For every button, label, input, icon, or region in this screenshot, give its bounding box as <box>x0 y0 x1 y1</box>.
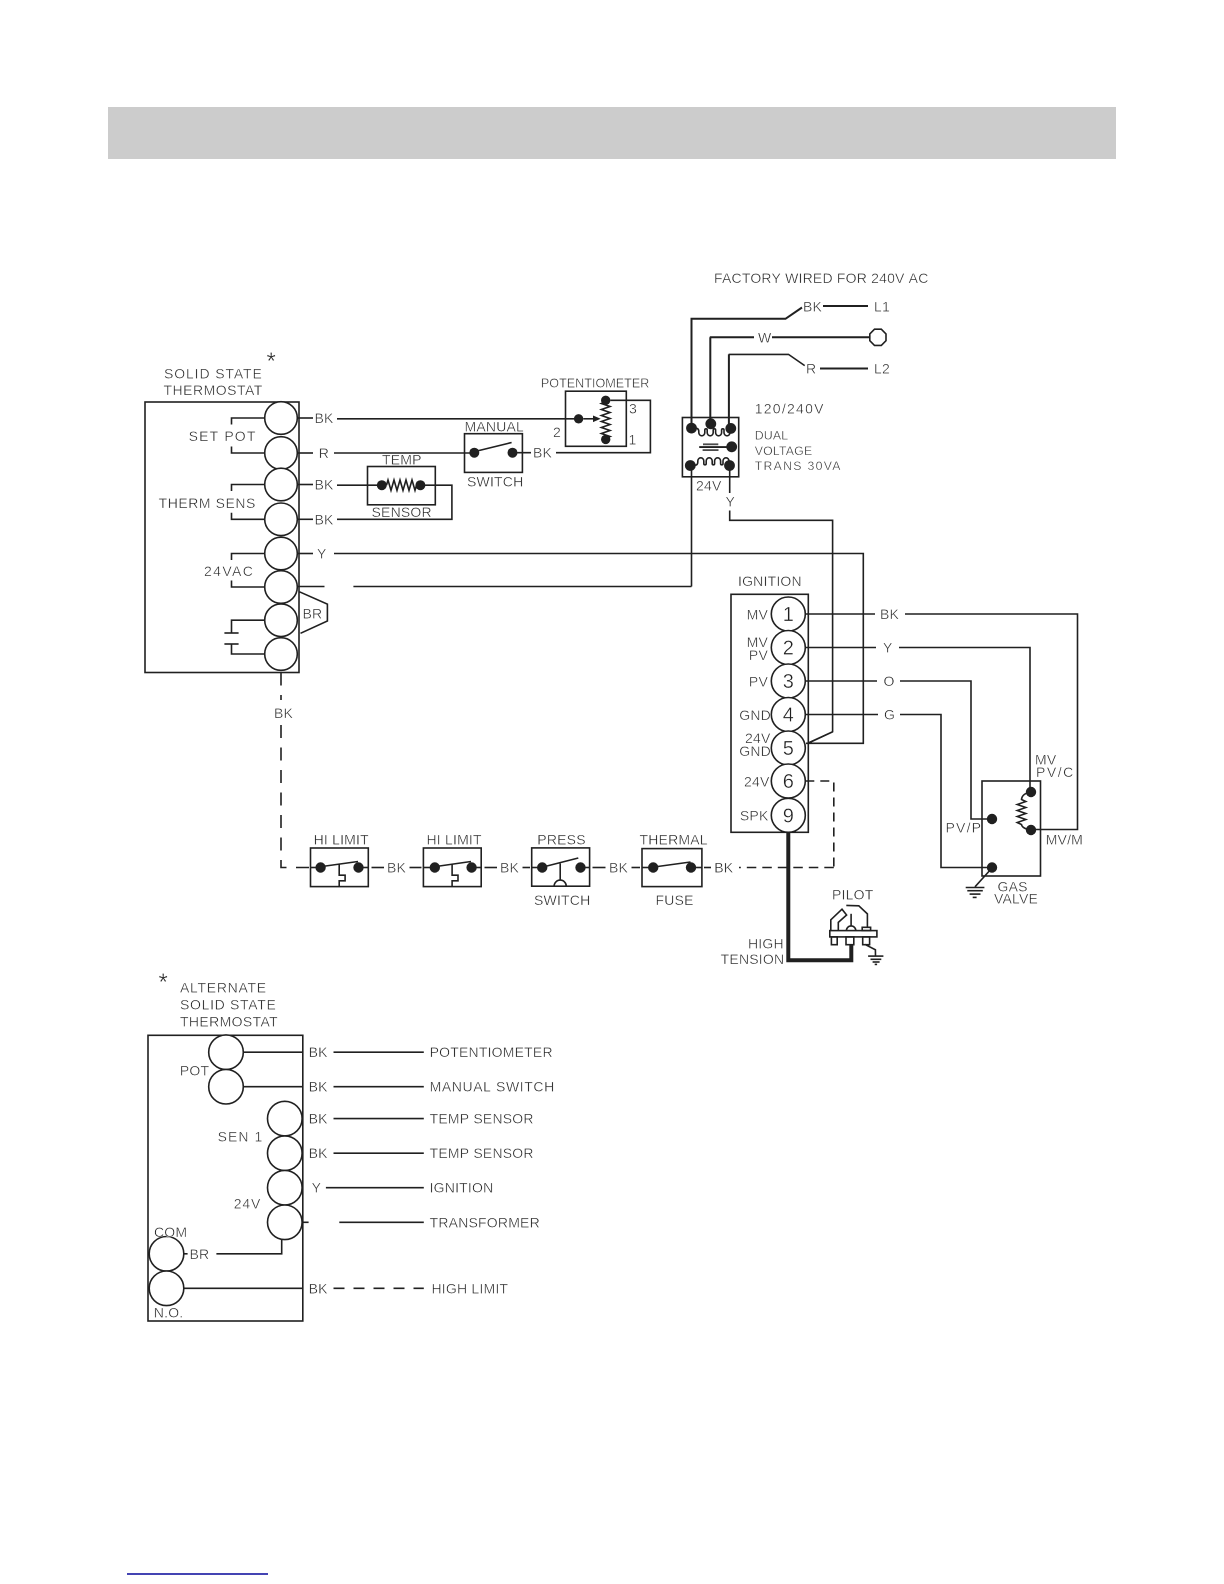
wire alt row5 right <box>326 1187 424 1189</box>
wire Y to ignition <box>730 511 833 744</box>
svg-text:SPK: SPK <box>740 807 769 823</box>
wire pin2 right <box>805 647 876 649</box>
hi limit 2 reset step <box>452 864 458 886</box>
capacitor link terminals 7-8 <box>232 620 265 633</box>
ignition box <box>731 594 808 832</box>
pilot leg right <box>863 937 870 945</box>
transformer T1 dual voltage box <box>682 418 738 477</box>
wire BK to temp sensor <box>337 484 382 486</box>
svg-text:SOLID STATE: SOLID STATE <box>164 366 262 382</box>
svg-text:FUSE: FUSE <box>656 892 694 908</box>
svg-text:G: G <box>884 707 895 723</box>
pilot electrode bent <box>831 909 847 930</box>
wire terminal4 stub <box>297 518 313 520</box>
wire dash BK2 <box>485 867 498 869</box>
svg-text:Y: Y <box>883 640 893 656</box>
pilot hood <box>846 905 867 927</box>
hi limit 2 lever <box>436 862 471 867</box>
svg-text:BK: BK <box>309 1145 329 1161</box>
wire alt row1 right <box>334 1051 424 1053</box>
wire alt row6 right <box>339 1221 424 1223</box>
hi limit 1 reset step <box>339 864 345 886</box>
svg-text:TEMP: TEMP <box>382 452 422 468</box>
svg-text:PILOT: PILOT <box>832 886 874 902</box>
svg-text:IGNITION: IGNITION <box>738 573 802 589</box>
ground symbol gas valve <box>966 887 985 889</box>
wire dashed N.O. to high limit <box>334 1287 424 1289</box>
svg-text:GND: GND <box>739 707 771 723</box>
svg-text:120/240V: 120/240V <box>755 401 824 417</box>
svg-text:SWITCH: SWITCH <box>467 474 523 490</box>
wire pin6 dashed to chain <box>805 781 834 868</box>
svg-text:HIGH: HIGH <box>748 935 784 951</box>
svg-text:BK: BK <box>500 860 520 876</box>
potentiometer box <box>566 391 627 446</box>
bracket THERM SENS <box>232 485 265 492</box>
wire dash to press switch <box>523 867 531 869</box>
svg-text:HI LIMIT: HI LIMIT <box>427 832 483 848</box>
hi limit 1 lever <box>322 862 358 867</box>
wire L2 feed vertical <box>728 354 730 428</box>
terminal circles thermostat <box>265 402 298 435</box>
wire BK dashed to hi limit <box>281 725 311 868</box>
svg-text:1: 1 <box>629 432 637 448</box>
potentiometer wiper arrow <box>583 418 594 420</box>
press switch diaphragm <box>554 880 566 886</box>
svg-text:BK: BK <box>309 1079 329 1095</box>
pilot sensor wire <box>850 914 852 926</box>
wire L1 feed diagonal <box>692 308 803 428</box>
svg-text:BK: BK <box>315 511 335 527</box>
press switch dots <box>537 862 547 872</box>
wire terminal6 stub <box>297 586 324 588</box>
gas valve terminal dots <box>1026 787 1036 797</box>
svg-text:TEMP SENSOR: TEMP SENSOR <box>430 1145 534 1161</box>
alt terminal circles 24V <box>268 1170 303 1205</box>
manual switch lever <box>475 443 512 452</box>
manual switch dots <box>469 448 479 458</box>
wire T1 secondary left down <box>691 466 693 587</box>
wire L2 feed <box>729 354 805 365</box>
wire pin3 right <box>805 680 877 682</box>
thermal fuse dots <box>648 862 658 872</box>
wire N.O. row <box>184 1287 303 1289</box>
svg-text:SWITCH: SWITCH <box>534 892 590 908</box>
svg-text:Y: Y <box>312 1180 322 1196</box>
wire terminal3 stub <box>297 484 313 486</box>
wire pin1 right <box>805 613 875 615</box>
svg-text:1: 1 <box>783 604 794 626</box>
svg-text:Y: Y <box>317 546 327 562</box>
hi limit switch 2 box <box>423 848 481 887</box>
wire terminal5 stub <box>297 553 313 555</box>
thermostat box <box>145 402 299 673</box>
wire R to manual switch <box>334 452 474 454</box>
wire pot terminal3 loop <box>556 400 650 452</box>
svg-text:W: W <box>758 329 772 345</box>
hi limit 2 dots <box>430 862 440 872</box>
svg-text:BK: BK <box>609 860 629 876</box>
svg-text:SENSOR: SENSOR <box>372 504 432 520</box>
wire dash to hi limit 2 <box>410 867 422 869</box>
wire R to L2 <box>820 368 868 370</box>
wire terminal1 stub <box>297 417 313 419</box>
manual switch box <box>465 434 523 473</box>
potentiometer terminal dots <box>574 414 583 423</box>
svg-text:THERMOSTAT: THERMOSTAT <box>180 1013 278 1029</box>
wire BK dashed below thermostat <box>280 673 282 701</box>
svg-text:24VAC: 24VAC <box>204 563 253 579</box>
bracket SET POT <box>232 418 265 425</box>
wire BK terminal4 to sensor loop <box>337 485 452 519</box>
svg-text:BK: BK <box>309 1044 329 1060</box>
ground symbol pilot <box>868 955 883 957</box>
alt terminal circle N.O. <box>149 1271 184 1306</box>
wire T1 secondary right down <box>729 466 731 493</box>
temp sensor resistor <box>387 480 417 490</box>
wire Y long to ignition <box>334 554 863 744</box>
ignition terminal circles <box>771 597 805 631</box>
svg-text:COM: COM <box>154 1224 187 1240</box>
pilot leg middle <box>846 937 854 945</box>
svg-text:THERM SENS: THERM SENS <box>159 495 256 511</box>
svg-text:*: * <box>267 348 276 375</box>
svg-text:PV: PV <box>749 647 769 663</box>
svg-text:9: 9 <box>783 805 794 827</box>
svg-text:HI LIMIT: HI LIMIT <box>314 832 370 848</box>
svg-text:SET POT: SET POT <box>189 428 256 444</box>
svg-text:THERMOSTAT: THERMOSTAT <box>164 382 263 398</box>
svg-text:MANUAL: MANUAL <box>465 419 525 435</box>
alt terminal circles SEN <box>268 1101 303 1136</box>
pilot leg left <box>831 937 837 945</box>
alt terminal circle COM <box>149 1237 184 1272</box>
gas valve box <box>982 781 1041 876</box>
svg-text:PV: PV <box>749 674 769 690</box>
svg-text:TRANS 30VA: TRANS 30VA <box>755 459 842 473</box>
svg-text:FACTORY WIRED FOR 240V AC: FACTORY WIRED FOR 240V AC <box>714 270 929 286</box>
wire dash BK1 <box>372 867 385 869</box>
header gray bar <box>108 107 1116 159</box>
terminal dots T1 <box>686 423 697 434</box>
svg-text:DUAL: DUAL <box>755 428 789 442</box>
svg-text:POTENTIOMETER: POTENTIOMETER <box>541 377 649 391</box>
svg-text:PV/P: PV/P <box>946 820 982 836</box>
wire W to terminal <box>772 336 869 338</box>
wire alt row2 right <box>334 1086 424 1088</box>
wire BK to L1 <box>823 305 868 307</box>
alternate thermostat box <box>148 1035 303 1321</box>
svg-text:THERMAL: THERMAL <box>640 832 708 848</box>
svg-text:VALVE: VALVE <box>994 891 1038 907</box>
pressure switch box <box>532 848 590 886</box>
svg-text:2: 2 <box>783 638 794 660</box>
svg-text:BK: BK <box>315 410 335 426</box>
thermal fuse link <box>654 862 691 867</box>
wire BR to 24V <box>216 1240 281 1254</box>
gas valve ground lead <box>975 868 992 887</box>
wire alt row2 <box>243 1086 302 1088</box>
alt terminal circles POT <box>209 1035 244 1070</box>
svg-text:24V: 24V <box>696 478 722 494</box>
wire alt row3 right <box>334 1118 424 1120</box>
press switch stubs <box>532 867 543 869</box>
wire G to gas valve ground terminal <box>900 715 992 868</box>
wire Y to gas valve coil <box>899 648 1030 793</box>
svg-text:6: 6 <box>783 771 794 793</box>
svg-text:TEMP SENSOR: TEMP SENSOR <box>430 1111 534 1127</box>
wire SPK high tension <box>788 832 851 960</box>
pilot ground lead <box>865 944 876 956</box>
BR flag <box>300 592 328 634</box>
svg-text:R: R <box>319 445 329 461</box>
svg-text:2: 2 <box>553 424 561 440</box>
svg-text:BK: BK <box>274 705 294 721</box>
svg-text:O: O <box>884 673 895 689</box>
svg-text:5: 5 <box>783 738 794 760</box>
press switch actuator <box>559 864 561 881</box>
svg-text:BR: BR <box>303 606 323 622</box>
thermal fuse stubs <box>642 867 653 869</box>
wire BK to potentiometer wiper <box>337 418 579 420</box>
svg-text:TRANSFORMER: TRANSFORMER <box>430 1214 540 1230</box>
svg-text:24V: 24V <box>744 774 770 790</box>
svg-text:BK: BK <box>387 860 407 876</box>
svg-text:BK: BK <box>803 299 823 315</box>
wire pin4 right <box>805 714 878 716</box>
wire COM stub <box>184 1253 188 1255</box>
svg-text:R: R <box>806 361 816 377</box>
svg-text:PRESS: PRESS <box>537 832 585 848</box>
svg-text:MV/M: MV/M <box>1046 831 1083 847</box>
transformer primary winding <box>692 428 731 436</box>
wire dash BK3 <box>593 867 606 869</box>
svg-text:BK: BK <box>533 445 553 461</box>
pilot sensor dome <box>846 926 855 931</box>
svg-text:MANUAL SWITCH: MANUAL SWITCH <box>430 1079 555 1095</box>
svg-text:3: 3 <box>783 671 794 693</box>
svg-text:POTENTIOMETER: POTENTIOMETER <box>430 1044 553 1060</box>
svg-text:BK: BK <box>309 1280 329 1296</box>
svg-text:N.O.: N.O. <box>154 1305 184 1321</box>
pilot thermocouple block <box>862 927 870 930</box>
svg-text:SOLID STATE: SOLID STATE <box>180 997 276 1013</box>
svg-text:BK: BK <box>309 1111 329 1127</box>
svg-text:Y: Y <box>726 494 736 510</box>
svg-text:VOLTAGE: VOLTAGE <box>755 444 813 458</box>
wire alt row6 stub <box>303 1221 309 1223</box>
svg-text:BK: BK <box>714 860 734 876</box>
svg-text:BK: BK <box>880 606 900 622</box>
wire O to gas valve PV/P <box>900 681 992 819</box>
svg-text:HIGH LIMIT: HIGH LIMIT <box>432 1280 509 1296</box>
svg-text:24V: 24V <box>234 1195 261 1211</box>
wire pin5 diagonal from transformer <box>807 732 832 744</box>
transformer core <box>703 443 718 445</box>
wire 24VAC to thermostat <box>353 586 691 588</box>
wire W lead left <box>710 336 754 338</box>
node W terminal circle <box>870 329 886 345</box>
wire alt row1 <box>243 1051 302 1053</box>
transformer secondary winding <box>690 458 729 466</box>
wire switch to BK <box>513 452 532 454</box>
svg-text:POT: POT <box>180 1063 210 1079</box>
potentiometer resistor zigzag <box>601 400 610 439</box>
svg-text:BR: BR <box>190 1246 210 1262</box>
wire dash to thermal fuse <box>632 867 641 869</box>
pilot burner bar <box>830 931 877 937</box>
svg-text:*: * <box>159 969 168 996</box>
hi limit 2 terminal stubs <box>423 867 434 869</box>
thermal fuse box <box>642 849 702 887</box>
svg-text:GND: GND <box>739 743 771 759</box>
gas valve coil <box>1017 792 1031 830</box>
wire alt row4 right <box>334 1152 424 1154</box>
svg-text:BK: BK <box>315 477 335 493</box>
wire BK to gas valve MV/M <box>905 614 1078 830</box>
wire terminal2 stub <box>297 452 313 454</box>
temp sensor box <box>368 467 436 505</box>
svg-text:PV/C: PV/C <box>1036 764 1073 780</box>
svg-text:ALTERNATE: ALTERNATE <box>180 980 266 996</box>
temp sensor dots <box>377 480 387 490</box>
svg-text:SEN 1: SEN 1 <box>218 1128 263 1144</box>
svg-text:3: 3 <box>629 401 637 417</box>
hi limit 1 dots <box>315 862 325 872</box>
hi limit switch 1 box <box>311 848 369 887</box>
bracket 24VAC <box>232 554 265 561</box>
svg-text:L1: L1 <box>874 299 890 315</box>
svg-text:4: 4 <box>783 705 794 727</box>
wire W feed vertical <box>709 337 711 423</box>
wire dash BK4 <box>704 867 711 869</box>
svg-text:L2: L2 <box>874 361 890 377</box>
hi limit 1 terminal stubs <box>311 867 321 869</box>
footer blue line <box>127 1573 268 1575</box>
press switch lever <box>543 858 578 867</box>
svg-text:TENSION: TENSION <box>721 951 785 967</box>
svg-text:IGNITION: IGNITION <box>430 1180 494 1196</box>
svg-text:MV: MV <box>747 607 769 623</box>
